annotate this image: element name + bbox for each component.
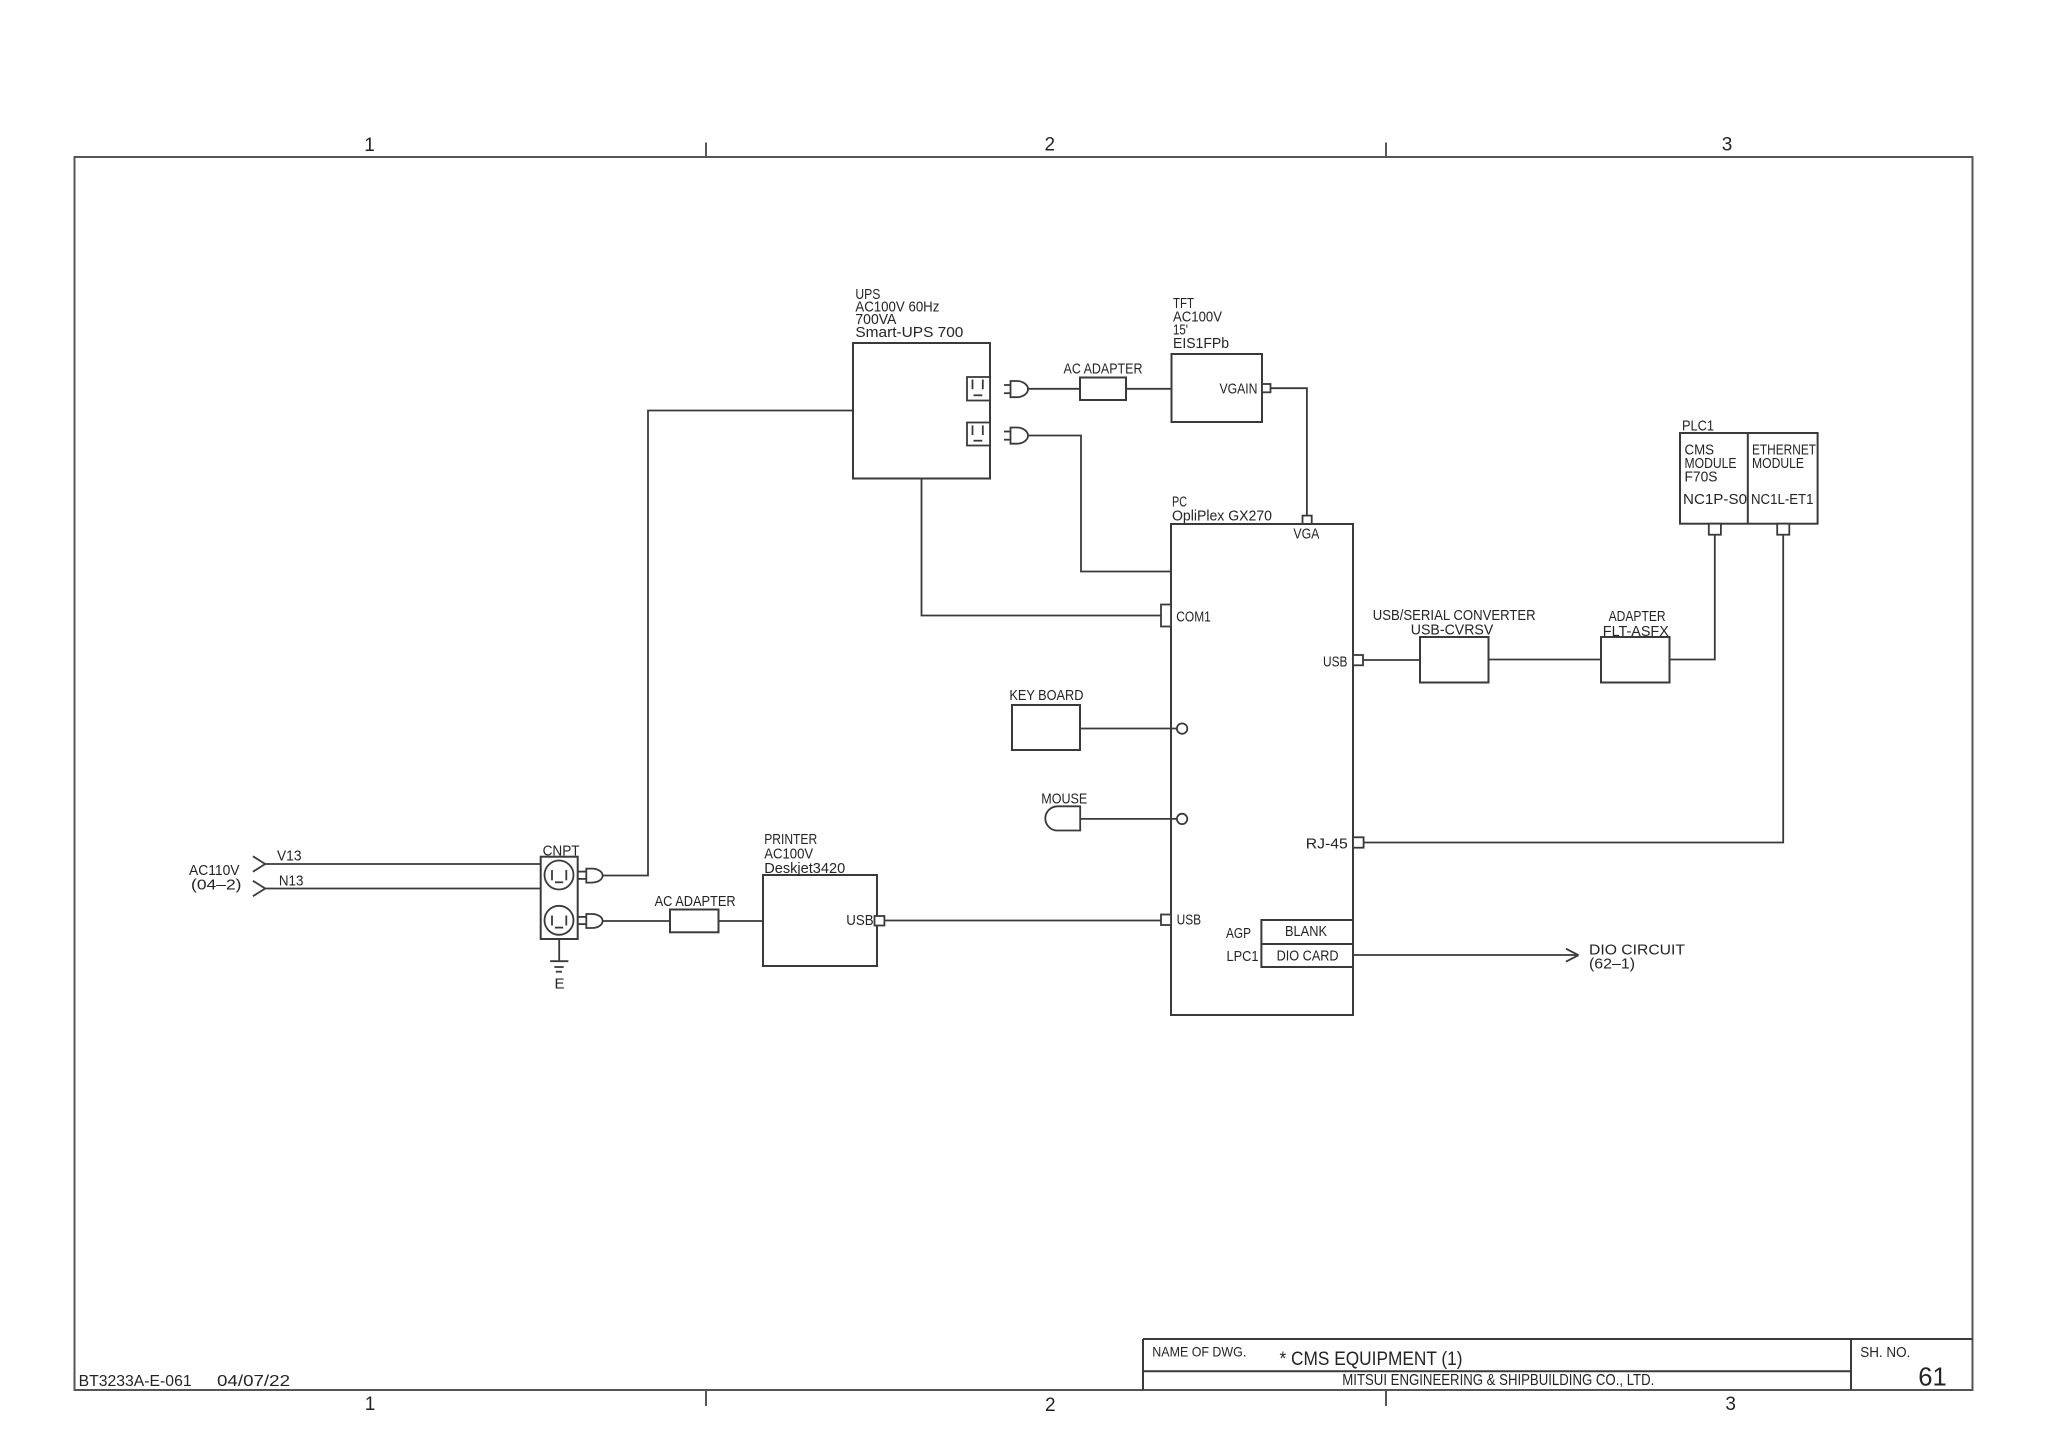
- svg-text:2: 2: [1045, 1395, 1056, 1416]
- ground E: [550, 939, 568, 993]
- svg-text:DIO CARD: DIO CARD: [1277, 948, 1339, 965]
- keyboard: [1009, 687, 1083, 750]
- VGA connector: [1293, 516, 1319, 543]
- AGP slot BLANK card: [1226, 920, 1353, 944]
- svg-text:3: 3: [1725, 1394, 1736, 1415]
- svg-text:NC1L-ET1: NC1L-ET1: [1751, 491, 1814, 508]
- wire CNPT plug to UPS mains input: [603, 411, 853, 876]
- svg-text:COM1: COM1: [1176, 609, 1211, 626]
- wire UPS to COM1 serial: [922, 479, 1162, 616]
- CNPT plug 1: [578, 869, 602, 883]
- svg-text:EIS1FPb: EIS1FPb: [1173, 335, 1229, 352]
- wire mouse to PC: [1080, 818, 1177, 820]
- wire VGAIN to VGA: [1271, 388, 1307, 515]
- svg-text:AC ADAPTER: AC ADAPTER: [1064, 361, 1143, 378]
- svg-text:Smart-UPS 700: Smart-UPS 700: [855, 324, 963, 341]
- svg-text:BT3233A-E-061: BT3233A-E-061: [79, 1373, 192, 1390]
- adapter FLT-ASFX: [1601, 608, 1670, 683]
- UPS outlet socket 2: [967, 423, 990, 446]
- wire converter to adapter FLT-ASFX: [1489, 659, 1602, 661]
- CNPT plug 2: [578, 914, 602, 928]
- title block: [1143, 1339, 1973, 1390]
- svg-text:E: E: [555, 976, 565, 993]
- PC rear USB connector: [1323, 654, 1363, 671]
- wire AC adapter A2 to printer: [719, 920, 764, 922]
- plug P1 TFT power plug: [1004, 381, 1028, 397]
- PC mouse port: [1177, 814, 1187, 824]
- sheet number cell: [1860, 1344, 1947, 1392]
- VGAIN connector: [1262, 384, 1271, 392]
- wire plug P1 to AC adapter A1: [1028, 388, 1080, 390]
- wire keyboard to PC: [1080, 728, 1177, 730]
- svg-text:BLANK: BLANK: [1285, 923, 1327, 940]
- svg-text:RJ-45: RJ-45: [1306, 836, 1348, 853]
- svg-text:2: 2: [1045, 135, 1056, 156]
- PC keyboard port: [1177, 723, 1187, 733]
- svg-text:* CMS EQUIPMENT (1): * CMS EQUIPMENT (1): [1280, 1349, 1463, 1370]
- CNPT outlet box: [541, 843, 580, 940]
- USB/serial converter USB-CVRSV: [1373, 607, 1536, 683]
- PC front USB connector: [1161, 912, 1201, 929]
- node V13 feed wire: [253, 848, 541, 872]
- wire adapter to PLC1 CMS module: [1670, 535, 1715, 660]
- wire ethernet module to RJ-45: [1364, 535, 1784, 843]
- svg-text:MODULE: MODULE: [1752, 455, 1804, 472]
- printer Deskjet3420: [763, 831, 877, 966]
- LPC1 slot DIO card: [1227, 944, 1354, 967]
- wire PC USB to USB/serial converter: [1363, 659, 1420, 661]
- svg-text:VGA: VGA: [1293, 526, 1319, 543]
- svg-text:OpliPlex GX270: OpliPlex GX270: [1172, 508, 1272, 525]
- PC OpliPlex GX270: [1171, 494, 1353, 1016]
- svg-text:MITSUI ENGINEERING & SHIPBUILD: MITSUI ENGINEERING & SHIPBUILDING CO., L…: [1342, 1372, 1654, 1389]
- svg-text:(62–1): (62–1): [1589, 956, 1635, 973]
- svg-text:1: 1: [364, 135, 375, 156]
- svg-text:USB: USB: [1323, 654, 1348, 671]
- wire CNPT plug 2 to AC adapter A2: [603, 920, 670, 922]
- svg-text:NAME OF DWG.: NAME OF DWG.: [1152, 1344, 1246, 1360]
- svg-text:SH. NO.: SH. NO.: [1860, 1344, 1910, 1361]
- svg-text:USB: USB: [1177, 912, 1202, 929]
- mouse: [1041, 791, 1087, 831]
- COM1 connector: [1161, 605, 1211, 627]
- svg-text:61: 61: [1918, 1362, 1947, 1392]
- svg-text:3: 3: [1722, 135, 1733, 156]
- wire printer USB to PC front USB: [884, 920, 1161, 922]
- svg-text:N13: N13: [279, 873, 304, 890]
- UPS unit U-UPS: [853, 286, 990, 479]
- svg-text:PLC1: PLC1: [1682, 418, 1714, 435]
- svg-text:KEY BOARD: KEY BOARD: [1009, 687, 1083, 704]
- TFT monitor: [1172, 295, 1263, 422]
- drawing number and date: [79, 1373, 291, 1390]
- svg-text:V13: V13: [277, 848, 302, 865]
- svg-text:MOUSE: MOUSE: [1041, 791, 1087, 808]
- svg-text:AC ADAPTER: AC ADAPTER: [655, 893, 736, 910]
- svg-text:F70S: F70S: [1685, 469, 1718, 486]
- AC adapter A2 (printer): [655, 893, 736, 932]
- svg-text:USB: USB: [846, 912, 873, 929]
- svg-text:Deskjet3420: Deskjet3420: [764, 860, 845, 877]
- AC adapter A1 (TFT): [1064, 361, 1143, 401]
- svg-text:(04–2): (04–2): [191, 877, 242, 894]
- printer USB connector: [875, 916, 885, 926]
- svg-text:USB-CVRSV: USB-CVRSV: [1411, 622, 1494, 639]
- wire plug P2 to PC power inlet: [1028, 436, 1171, 572]
- svg-text:LPC1: LPC1: [1227, 948, 1259, 965]
- RJ-45 connector: [1306, 836, 1364, 853]
- DIO CIRCUIT destination label: [1589, 942, 1685, 973]
- PLC1 CMS module port: [1709, 524, 1721, 535]
- PLC1: [1680, 418, 1818, 524]
- plug P2 PC power plug: [1004, 428, 1028, 444]
- UPS outlet socket 1: [967, 377, 990, 401]
- AC110V source label: [189, 862, 242, 894]
- node N13 feed wire: [253, 873, 541, 897]
- wire AC adapter A1 to TFT: [1126, 388, 1172, 390]
- svg-text:VGAIN: VGAIN: [1220, 381, 1258, 398]
- svg-text:1: 1: [365, 1394, 376, 1415]
- svg-text:NC1P-S0: NC1P-S0: [1683, 491, 1747, 508]
- svg-text:AGP: AGP: [1226, 925, 1251, 942]
- svg-text:04/07/22: 04/07/22: [217, 1373, 290, 1390]
- wire DIO card to DIO circuit: [1353, 949, 1579, 962]
- PLC1 ethernet module port: [1777, 524, 1789, 535]
